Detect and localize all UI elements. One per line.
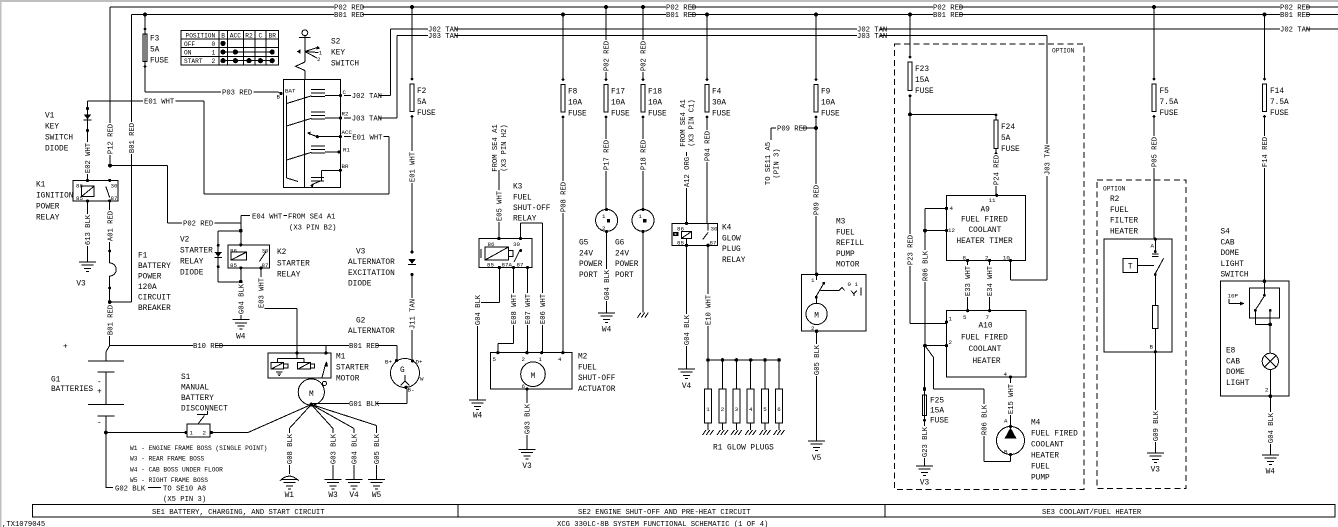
svg-text:HEATER TIMER: HEATER TIMER	[957, 238, 1013, 246]
svg-text:REFILL: REFILL	[836, 240, 864, 248]
wire A01 RED / breaker feed	[109, 201, 111, 346]
svg-text:PUMP: PUMP	[836, 251, 855, 259]
svg-text:A: A	[1151, 243, 1155, 250]
svg-text:85: 85	[487, 261, 494, 268]
wire fan to S1 diagonal	[248, 405, 311, 433]
lamp E8 cab dome light	[1269, 324, 1271, 353]
svg-text:POWER: POWER	[615, 261, 639, 269]
svg-text:A9: A9	[981, 207, 991, 215]
svg-text:4: 4	[1004, 371, 1008, 378]
glow plug 1	[706, 358, 710, 362]
svg-text:ACC: ACC	[230, 32, 241, 39]
svg-text:B: B	[221, 32, 225, 39]
svg-text:G23 BLK: G23 BLK	[922, 426, 930, 457]
svg-text:B+: B+	[385, 359, 392, 366]
svg-text:2: 2	[721, 406, 725, 413]
wire P09 RED branch to SE11	[771, 127, 816, 129]
wire P18 RED	[642, 117, 644, 210]
svg-text:FUSE: FUSE	[1001, 146, 1020, 154]
relay K2 starter relay	[228, 245, 270, 268]
svg-text:COOLANT: COOLANT	[969, 227, 1002, 235]
svg-text:A: A	[1004, 418, 1008, 425]
wire G04 BLK under K4	[686, 245, 688, 369]
svg-text:W4 - CAB BOSS UNDER FLOOR: W4 - CAB BOSS UNDER FLOOR	[130, 466, 223, 473]
svg-text:MOTOR: MOTOR	[836, 262, 860, 270]
svg-text:R1 GLOW PLUGS: R1 GLOW PLUGS	[713, 445, 774, 453]
wire P23 RED	[909, 96, 911, 324]
svg-text:E06 WHT: E06 WHT	[540, 293, 548, 324]
fuse F2	[411, 7, 413, 79]
svg-text:V3: V3	[1151, 467, 1161, 475]
starter M1 solenoid	[268, 353, 331, 378]
svg-text:M: M	[814, 313, 819, 321]
svg-text:LIGHT: LIGHT	[1226, 380, 1250, 388]
svg-text:F8: F8	[568, 89, 578, 97]
svg-text:B: B	[1150, 344, 1154, 351]
wire B10 RED / B01 RED to alternator	[110, 345, 397, 347]
alternator G2	[391, 359, 420, 388]
svg-text:K3: K3	[513, 184, 523, 192]
svg-text:G6: G6	[615, 240, 625, 248]
contact BR	[339, 169, 342, 172]
svg-text:87: 87	[710, 239, 717, 246]
svg-text:RELAY: RELAY	[513, 216, 537, 224]
svg-text:8: 8	[963, 255, 967, 262]
wire G05 BLK	[311, 405, 376, 426]
diode V2 starter relay diode	[218, 230, 241, 232]
svg-text:PORT: PORT	[579, 272, 598, 280]
junction B01/F3	[143, 13, 147, 17]
svg-text:G01 BLK: G01 BLK	[349, 401, 380, 409]
svg-text:12: 12	[948, 227, 955, 234]
svg-text:4: 4	[749, 406, 753, 413]
wire F24 feed	[910, 113, 996, 115]
junction B01/F14	[1263, 13, 1267, 17]
svg-text:3: 3	[735, 406, 739, 413]
svg-text:87A: 87A	[502, 261, 513, 268]
power port G6 24V	[632, 209, 654, 231]
svg-text:ON: ON	[184, 49, 192, 56]
svg-text:B01 RED: B01 RED	[1280, 12, 1310, 20]
svg-text:B01 RED: B01 RED	[933, 12, 963, 20]
wire G08 BLK	[289, 405, 311, 429]
wire P02 RED bus	[110, 6, 1338, 8]
svg-text:FUEL FIRED: FUEL FIRED	[961, 216, 1008, 224]
svg-text:G: G	[400, 367, 405, 375]
pump M4 fuel fired coolant heater fuel pump	[997, 427, 1025, 455]
wire B01 RED bus	[132, 14, 1338, 16]
svg-text:G04 BLK: G04 BLK	[604, 269, 612, 300]
svg-text:P17 RED: P17 RED	[604, 140, 612, 170]
svg-text:S1: S1	[181, 374, 191, 382]
svg-text:S2: S2	[331, 39, 341, 47]
svg-text:CAB: CAB	[1226, 358, 1240, 366]
svg-text:J03 TAN: J03 TAN	[1045, 145, 1053, 175]
svg-text:E05 WHT: E05 WHT	[496, 190, 504, 221]
svg-text:OPTION: OPTION	[1052, 48, 1075, 55]
svg-text:G2: G2	[356, 318, 366, 326]
fuse F23	[909, 15, 911, 58]
svg-text:F2: F2	[417, 88, 427, 96]
svg-text:FUSE: FUSE	[712, 111, 731, 119]
svg-text:COOLANT: COOLANT	[1031, 442, 1064, 450]
svg-text:STARTER: STARTER	[180, 248, 213, 256]
svg-text:2: 2	[949, 339, 953, 346]
svg-text:85: 85	[230, 262, 237, 269]
wire E06 WHT	[520, 223, 522, 239]
svg-text:W4: W4	[473, 413, 483, 421]
svg-text:FILTER: FILTER	[1110, 218, 1138, 226]
wire P03 RED	[145, 91, 278, 93]
wire R06 BLK to fuel pump	[925, 346, 934, 358]
svg-text:V5: V5	[812, 455, 822, 463]
starter M1 motor	[298, 379, 324, 405]
wire B01 RED left drop	[131, 15, 133, 303]
svg-text:M1: M1	[336, 354, 346, 362]
svg-text:J03 TAN: J03 TAN	[857, 33, 887, 41]
wire E15 WHT	[1010, 377, 1012, 427]
junction R06/A10 pin2	[923, 344, 927, 348]
svg-text:5A: 5A	[150, 47, 160, 55]
svg-text:G1: G1	[51, 377, 61, 385]
svg-text:V3: V3	[356, 249, 366, 257]
svg-text:STARTER: STARTER	[277, 261, 310, 269]
svg-text:10A: 10A	[568, 100, 582, 108]
svg-text:SE2 ENGINE SHUT-OFF AND PRE-HE: SE2 ENGINE SHUT-OFF AND PRE-HEAT CIRCUIT	[578, 509, 751, 517]
relay K1 ignition power relay	[73, 180, 118, 201]
svg-text:FUEL: FUEL	[1031, 464, 1050, 472]
svg-text:1: 1	[190, 430, 194, 437]
page top border	[0, 0, 1338, 2]
contact R1	[287, 152, 312, 160]
svg-text:RELAY: RELAY	[277, 272, 301, 280]
svg-text:M3: M3	[836, 219, 846, 227]
svg-text:J02 TAN: J02 TAN	[352, 93, 382, 101]
ground W4 under E8	[1262, 455, 1279, 465]
svg-text:FROM SE4 A1: FROM SE4 A1	[288, 213, 335, 221]
fuse F25	[924, 346, 926, 466]
svg-text:E03 WHT: E03 WHT	[259, 277, 267, 308]
svg-text:2: 2	[811, 325, 815, 332]
svg-text:V3: V3	[920, 480, 930, 488]
ground V4 under K4	[678, 369, 695, 379]
svg-text:P18 RED: P18 RED	[641, 140, 649, 170]
svg-text:1: 1	[212, 49, 216, 56]
svg-text:T: T	[1128, 264, 1133, 272]
svg-text:RELAY: RELAY	[722, 257, 746, 265]
svg-text:F18: F18	[648, 89, 662, 97]
wire E07 WHT	[527, 268, 529, 353]
svg-text:R2: R2	[342, 111, 349, 118]
fuse F18	[642, 7, 644, 79]
svg-text:G05 BLK: G05 BLK	[814, 344, 822, 375]
svg-text:10A: 10A	[648, 100, 662, 108]
svg-text:KEY: KEY	[331, 50, 345, 58]
svg-text:D+: D+	[416, 359, 423, 366]
svg-text:ALTERNATOR: ALTERNATOR	[348, 328, 395, 336]
svg-text:FUEL FIRED: FUEL FIRED	[1031, 431, 1078, 439]
svg-text:SHUT-OFF: SHUT-OFF	[578, 375, 616, 383]
svg-text:R1: R1	[343, 147, 350, 154]
svg-text:6: 6	[522, 383, 526, 390]
svg-text:7: 7	[986, 314, 990, 321]
svg-text:E08 WHT: E08 WHT	[511, 293, 519, 324]
svg-text:5A: 5A	[1001, 135, 1011, 143]
fuse F8	[562, 15, 564, 80]
svg-text:(X3 PIN C1): (X3 PIN C1)	[689, 99, 697, 146]
thermostat T	[1123, 258, 1137, 272]
svg-text:7.5A: 7.5A	[1160, 99, 1179, 107]
svg-text:10A: 10A	[821, 100, 835, 108]
svg-text:F14: F14	[1270, 88, 1284, 96]
svg-text:R06 BLK: R06 BLK	[923, 250, 931, 281]
svg-text:P03 RED: P03 RED	[222, 90, 252, 98]
wire E08 WHT	[513, 268, 515, 344]
svg-text:A10: A10	[979, 323, 993, 331]
svg-text:W5: W5	[372, 492, 382, 500]
svg-text:24V: 24V	[579, 250, 593, 258]
title bar	[33, 505, 1336, 518]
svg-text:B01 RED: B01 RED	[107, 305, 115, 335]
junction P12/P02 branch	[108, 164, 112, 168]
svg-text:OFF: OFF	[184, 41, 195, 48]
svg-text:V3: V3	[76, 281, 86, 289]
wire P23 to A10 pin1	[910, 323, 947, 325]
wire under G6 to chassis ground	[642, 232, 644, 313]
svg-text:BAT: BAT	[285, 88, 296, 95]
svg-text:MANUAL: MANUAL	[181, 385, 209, 393]
svg-text:BR: BR	[342, 163, 349, 170]
glow plug 2	[721, 358, 725, 362]
svg-text:B-: B-	[408, 387, 415, 394]
wire G03 BLK	[311, 405, 333, 429]
junction B01/F4	[705, 13, 709, 17]
svg-text:1: 1	[539, 356, 543, 363]
pin M1 B+ stub	[325, 346, 327, 354]
junction K2 85 / V2	[239, 280, 243, 284]
svg-text:M: M	[309, 391, 314, 399]
page left border	[0, 0, 1, 527]
wire P04 RED	[706, 117, 708, 223]
junction P02/F5	[1152, 5, 1156, 9]
contact ACC	[316, 135, 319, 138]
svg-text:FUEL FIRED: FUEL FIRED	[961, 334, 1008, 342]
wire G04 BLK to V4	[311, 405, 354, 429]
svg-text:FROM SE4 A1: FROM SE4 A1	[680, 99, 688, 146]
svg-text:87: 87	[262, 262, 269, 269]
svg-text:SHUT-OFF: SHUT-OFF	[513, 205, 551, 213]
svg-text:(PIN 3): (PIN 3)	[773, 148, 781, 178]
svg-text:F17: F17	[611, 89, 625, 97]
ground V5 under M3	[808, 441, 825, 451]
wire J11 TAN	[408, 298, 415, 330]
svg-text:FUEL: FUEL	[513, 195, 532, 203]
svg-text:SWITCH: SWITCH	[1221, 272, 1249, 280]
wire G05 BLK under M3	[816, 331, 818, 441]
svg-text:B01 RED: B01 RED	[666, 12, 696, 20]
wire J03 TAN drop to timer pin 10	[1046, 36, 1048, 280]
fuse F14	[1264, 15, 1266, 80]
ground V3 under M2	[519, 450, 536, 460]
svg-text:FUSE: FUSE	[611, 111, 630, 119]
wire G04 BLK under G5	[606, 232, 608, 314]
svg-text:F3: F3	[150, 36, 160, 44]
svg-text:W1: W1	[285, 492, 295, 500]
svg-text:4: 4	[950, 205, 954, 212]
svg-text:G04 BLK: G04 BLK	[684, 314, 692, 345]
svg-text:DIODE: DIODE	[180, 270, 204, 278]
glow plug 4	[749, 358, 753, 362]
svg-text:FUSE: FUSE	[1160, 110, 1179, 118]
svg-text:V1: V1	[45, 113, 55, 121]
svg-text:2: 2	[317, 56, 321, 63]
svg-text:BREAKER: BREAKER	[138, 305, 171, 313]
svg-text:F9: F9	[821, 89, 831, 97]
svg-text:FUSE: FUSE	[915, 88, 934, 96]
wire J02 TAN bus	[391, 28, 1338, 30]
svg-text:R06 BLK: R06 BLK	[982, 404, 990, 435]
svg-text:0: 0	[212, 41, 216, 48]
svg-text:-: -	[97, 379, 102, 387]
wire P05 RED	[1153, 117, 1155, 240]
svg-text:K1: K1	[36, 182, 46, 190]
timer A9 fuel fired coolant heater timer	[947, 195, 1026, 260]
svg-text:HEATER: HEATER	[973, 358, 1001, 366]
svg-text:P05 RED: P05 RED	[1152, 137, 1160, 167]
junction P02/F17	[604, 5, 608, 9]
svg-text:DOME: DOME	[1226, 369, 1245, 377]
chassis ground under G6	[638, 313, 649, 318]
svg-text:613 BLK: 613 BLK	[85, 214, 93, 245]
svg-text:DOME: DOME	[1221, 250, 1240, 258]
svg-text:5: 5	[763, 406, 767, 413]
ground V3 under R2	[1147, 453, 1164, 463]
diode V3 alternator excitation diode	[411, 251, 414, 254]
svg-text:LIGHT: LIGHT	[1221, 261, 1245, 269]
svg-text:G04 BLK: G04 BLK	[238, 283, 246, 314]
fuse F4	[706, 15, 708, 80]
wire G03 BLK under M2	[526, 389, 528, 449]
relay K3 fuel shut-off relay	[479, 239, 532, 268]
svg-text:10: 10	[1003, 255, 1010, 262]
wire G23 BLK	[921, 426, 928, 458]
wire J03 TAN from R2	[344, 117, 397, 119]
svg-text:2: 2	[1265, 387, 1269, 394]
diode V1 key switch diode	[87, 101, 89, 180]
ground W3 rear frame boss	[325, 480, 342, 490]
svg-text:CIRCUIT: CIRCUIT	[138, 295, 171, 303]
svg-text:B01 RED: B01 RED	[334, 12, 364, 20]
power port G5 24V	[596, 209, 618, 231]
svg-text:10P: 10P	[1228, 293, 1239, 300]
svg-text:POSITION: POSITION	[186, 32, 216, 39]
wire E01 WHT	[88, 100, 205, 102]
svg-text:P12 RED: P12 RED	[108, 124, 116, 154]
svg-text:C: C	[259, 32, 263, 39]
ground V3 under K1	[79, 262, 96, 272]
svg-text:FUSE: FUSE	[150, 58, 169, 66]
wire E34 WHT	[989, 260, 991, 310]
svg-text:OPTION: OPTION	[1103, 186, 1126, 193]
svg-text:HEATER: HEATER	[1031, 453, 1059, 461]
svg-text:V4: V4	[349, 492, 359, 500]
svg-text:E8: E8	[1226, 348, 1236, 356]
svg-text:FUSE: FUSE	[821, 111, 840, 119]
junction B01/F9	[814, 13, 818, 17]
svg-text:SE3 COOLANT/FUEL HEATER: SE3 COOLANT/FUEL HEATER	[1042, 509, 1142, 517]
svg-text:W4: W4	[602, 327, 612, 335]
svg-text:1: 1	[706, 406, 710, 413]
option box fuel filter heater (dashed)	[1097, 180, 1186, 489]
glow plug 5	[763, 358, 767, 362]
wire R06 BLK timer to heater	[925, 207, 947, 209]
svg-text:SWITCH: SWITCH	[331, 61, 359, 69]
svg-text:+: +	[97, 389, 102, 397]
svg-text:0 1: 0 1	[848, 281, 859, 288]
fuse F9	[815, 15, 817, 80]
svg-text:P02 RED: P02 RED	[604, 41, 612, 71]
svg-text:P02 RED: P02 RED	[641, 41, 649, 71]
svg-text:E33 WHT: E33 WHT	[965, 265, 973, 296]
wire battery to S1	[106, 432, 248, 434]
svg-text:FUEL: FUEL	[578, 364, 597, 372]
svg-text:SWITCH: SWITCH	[45, 135, 73, 143]
junction P02/F18	[641, 5, 645, 9]
wire A10 pin2	[925, 345, 947, 347]
fuse F3	[144, 15, 146, 93]
table key switch positions	[181, 30, 279, 65]
svg-text:15A: 15A	[930, 408, 944, 416]
svg-text:P04 RED: P04 RED	[705, 131, 713, 161]
ground W4 under K3	[469, 400, 486, 410]
svg-text:11: 11	[989, 197, 996, 204]
svg-text:,TX1079045: ,TX1079045	[2, 521, 45, 527]
svg-text:G02 BLK: G02 BLK	[115, 485, 146, 493]
svg-text:DIODE: DIODE	[348, 281, 372, 289]
svg-text:EXCITATION: EXCITATION	[348, 270, 395, 278]
svg-text:GLOW: GLOW	[722, 235, 741, 243]
contact C	[287, 96, 312, 104]
wire G01 BLK	[311, 403, 407, 405]
svg-text:-: -	[97, 420, 102, 428]
svg-text:E07 WHT: E07 WHT	[525, 293, 533, 324]
svg-text:FUSE: FUSE	[930, 418, 949, 426]
svg-text:10A: 10A	[611, 100, 625, 108]
actuator M2 fuel shut-off actuator	[491, 353, 573, 389]
svg-text:1: 1	[602, 213, 606, 220]
svg-text:DISCONNECT: DISCONNECT	[181, 406, 228, 414]
svg-text:15A: 15A	[915, 77, 929, 85]
ground W4 under K2	[232, 320, 249, 330]
junction battery negative node	[104, 431, 108, 435]
junction B01/F23	[908, 13, 912, 17]
svg-text:PUMP: PUMP	[1031, 475, 1050, 483]
svg-text:G04 BLK: G04 BLK	[1268, 412, 1276, 443]
svg-text:A12 ORG: A12 ORG	[684, 157, 692, 187]
battery G1	[105, 352, 107, 361]
svg-text:ACC: ACC	[342, 129, 353, 136]
svg-text:E01 WHT: E01 WHT	[144, 99, 175, 107]
svg-text:START: START	[184, 58, 203, 65]
svg-text:2: 2	[985, 255, 989, 262]
svg-text:FUSE: FUSE	[1270, 110, 1289, 118]
heater element R2	[1154, 275, 1156, 306]
glow plug 6	[777, 358, 781, 362]
svg-text:J03 TAN: J03 TAN	[428, 33, 458, 41]
svg-text:W4: W4	[1266, 469, 1276, 477]
svg-text:FUEL: FUEL	[1110, 207, 1129, 215]
svg-text:G03 BLK: G03 BLK	[525, 403, 533, 434]
